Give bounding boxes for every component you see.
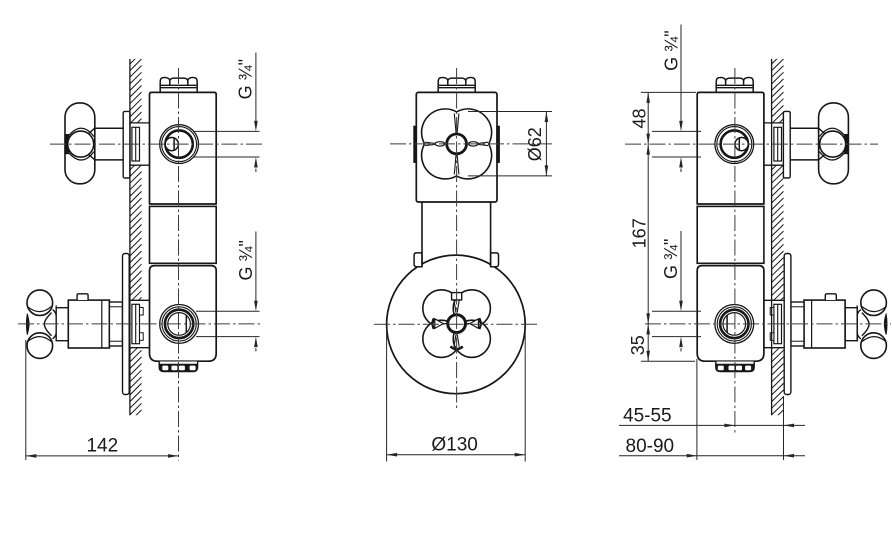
svg-text:35: 35 — [628, 335, 648, 355]
body upper section — [150, 92, 217, 204]
upper clover eyes — [435, 142, 445, 146]
lower handle neck — [56, 308, 68, 341]
front view big circle plate — [387, 255, 526, 394]
upper port G3/4 — [160, 125, 199, 164]
lower handle tip (black) — [884, 314, 887, 335]
body lower section — [697, 266, 764, 362]
lower handle lobes — [27, 290, 53, 316]
svg-text:142: 142 — [86, 436, 118, 457]
lower through-wall connector — [764, 299, 784, 301]
front view neck — [421, 202, 423, 253]
upper handle horn arcs — [819, 128, 847, 138]
front view side clips — [414, 126, 417, 162]
svg-text:Ø130: Ø130 — [431, 435, 477, 456]
lower handle adapter — [109, 302, 122, 346]
centerline front vertical — [456, 68, 458, 409]
dim Ø62 — [468, 111, 552, 113]
upper port G3/4 — [715, 125, 754, 164]
lower handle hub curves — [44, 313, 51, 336]
upper escutcheon plate — [783, 111, 790, 178]
upper handle hub — [820, 131, 846, 157]
lower handle cylinder — [68, 300, 109, 348]
lower escutcheon plate — [784, 254, 791, 395]
front view body — [416, 92, 497, 202]
centerline right vertical — [734, 68, 736, 433]
lower port G3/4 — [160, 305, 199, 344]
upper handle tip (black) — [65, 135, 69, 154]
svg-text:G ¾": G ¾" — [661, 30, 681, 70]
svg-text:G ¾": G ¾" — [236, 240, 256, 280]
svg-text:Ø62: Ø62 — [525, 127, 545, 161]
centerline front lower horizontal — [374, 323, 540, 325]
lower escutcheon plate — [123, 254, 130, 395]
lower handle cylinder — [804, 300, 845, 348]
front view mounting tabs — [414, 253, 422, 267]
centerline right upper horizontal — [625, 143, 878, 145]
upper through-wall connector — [130, 122, 150, 124]
upper handle hub — [68, 131, 94, 157]
centerline left upper horizontal — [50, 143, 263, 145]
lower handle hub curves — [862, 313, 869, 336]
upper handle cone — [89, 128, 95, 133]
upper handle stem — [95, 127, 123, 129]
upper handle cone — [819, 128, 825, 133]
lower handle button — [825, 294, 836, 300]
bottom cap — [159, 362, 197, 372]
dim chain 48-167-35 — [641, 91, 696, 93]
lower clover hub — [448, 315, 466, 333]
svg-text:G ¾": G ¾" — [236, 59, 256, 99]
svg-text:167: 167 — [630, 218, 650, 248]
svg-text:48: 48 — [630, 108, 650, 128]
top cap — [160, 77, 197, 92]
centerline left vertical — [178, 68, 180, 461]
lower handle button — [77, 294, 88, 300]
lower clover button — [452, 293, 462, 300]
lower clover side details — [470, 319, 479, 329]
body lower section — [150, 266, 217, 362]
svg-text:80-90: 80-90 — [626, 436, 675, 457]
left side view valve body — [26, 77, 216, 394]
upper handle horn arcs — [66, 128, 94, 138]
svg-text:45-55: 45-55 — [623, 405, 672, 426]
upper clover hub — [447, 134, 467, 154]
right side view valve body (mirrored) — [697, 77, 887, 394]
dim 80-90 — [696, 359, 698, 460]
dim Ø130 — [386, 328, 388, 462]
front view top cap — [438, 77, 475, 92]
body middle section — [150, 206, 217, 263]
body upper section — [697, 92, 764, 204]
body middle section — [697, 206, 764, 263]
left wall — [129, 59, 131, 415]
upper escutcheon plate — [123, 111, 130, 178]
upper clover handle silhouette — [422, 109, 492, 179]
right wall — [771, 59, 773, 415]
centerline front upper horizontal — [390, 143, 552, 145]
bottom cap — [716, 362, 754, 372]
top cap — [716, 77, 753, 92]
lower handle tip (black) — [26, 314, 29, 335]
dim 45-55 — [783, 396, 785, 460]
lower port G3/4 — [715, 305, 754, 344]
lower handle adapter — [791, 302, 804, 346]
upper handle lobes — [65, 103, 95, 184]
upper handle tip (black) — [845, 135, 849, 154]
lower handle lobes — [861, 290, 887, 316]
upper through-wall connector — [764, 122, 784, 124]
upper clover creases — [454, 113, 456, 133]
lower through-wall connector — [130, 299, 150, 301]
lower handle neck — [845, 308, 857, 341]
upper handle stem — [790, 127, 818, 129]
dim 142 — [25, 340, 27, 460]
centerline right lower horizontal — [645, 323, 891, 325]
lower clover creases — [454, 300, 456, 312]
centerline left lower horizontal — [18, 323, 263, 325]
lower clover handle petals — [423, 290, 460, 327]
svg-text:G ¾": G ¾" — [661, 239, 681, 279]
upper handle lobes — [819, 103, 849, 184]
